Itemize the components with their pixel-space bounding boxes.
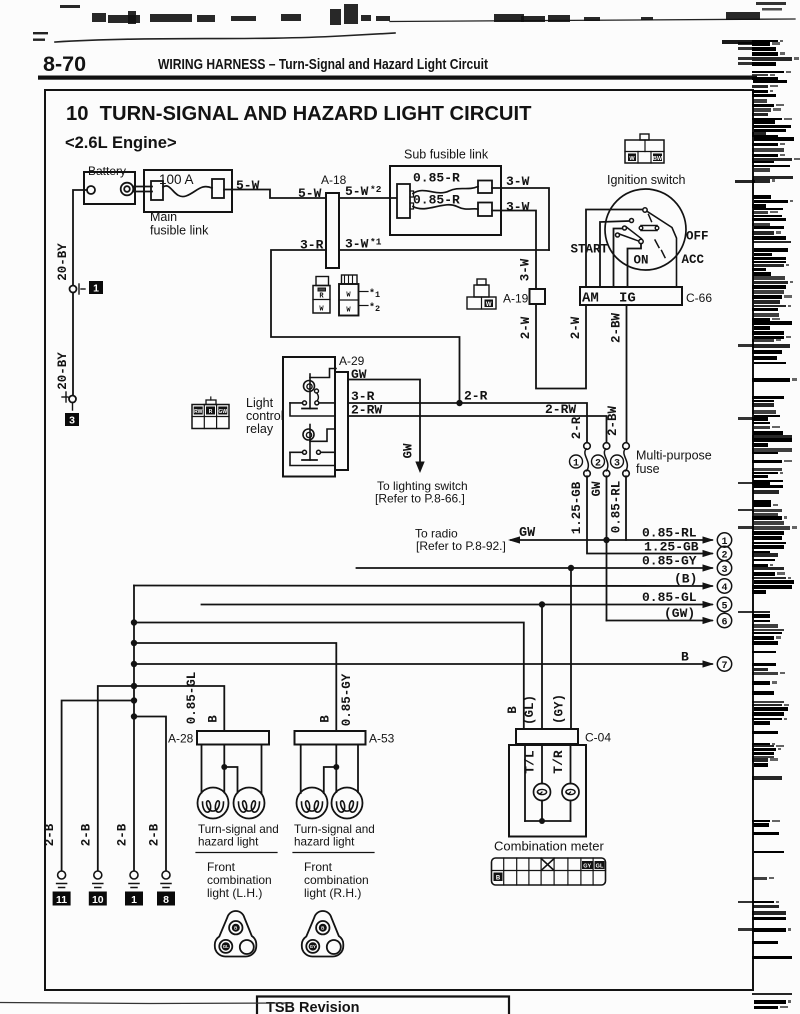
- A-53 left lamp leg: [300, 745, 302, 794]
- variant connector icon *1 (R/W): [316, 277, 329, 286]
- svg-text:0.85-GY: 0.85-GY: [340, 673, 354, 726]
- contact dot A: [630, 219, 634, 223]
- svg-text:<2.6L Engine>: <2.6L Engine>: [65, 134, 177, 152]
- ground terminal 1: [130, 871, 138, 879]
- svg-text:GW: GW: [351, 367, 367, 382]
- svg-text:Main: Main: [150, 210, 177, 224]
- svg-text:7: 7: [721, 661, 727, 672]
- svg-text:2: 2: [375, 304, 380, 314]
- double wire battery to fuse element: [133, 187, 152, 192]
- svg-text:20-BY: 20-BY: [56, 352, 70, 390]
- connector icon near A-19: [477, 279, 486, 285]
- svg-text:Ignition switch: Ignition switch: [607, 173, 686, 187]
- connector terminal at bottom of 20-BY: [69, 396, 76, 403]
- combination meter box: [509, 745, 586, 837]
- wire 20-BY lower segment: [72, 293, 74, 396]
- svg-text:A-18: A-18: [321, 173, 347, 187]
- svg-text:3-W: 3-W: [345, 237, 369, 252]
- svg-text:1: 1: [375, 290, 380, 300]
- A-28 inner junction: [221, 764, 227, 770]
- sub link left terminal: [397, 184, 410, 218]
- bus junction to A-53 B: [131, 640, 137, 646]
- connector A-53: [295, 731, 366, 745]
- wire AM feed to pivot: [586, 210, 643, 288]
- wire 2-W from A-19 to AM: [536, 304, 586, 389]
- svg-text:B: B: [207, 715, 221, 723]
- wire B to A-28: [134, 686, 224, 731]
- A-28 left lamp leg: [201, 745, 203, 793]
- svg-text:R: R: [209, 409, 213, 415]
- meter internal T/L feed: [541, 745, 543, 784]
- svg-text:W: W: [486, 302, 492, 308]
- combination meter connector strip: [492, 858, 606, 885]
- wire pivot to OFF leg: [647, 211, 677, 287]
- svg-text:(GW): (GW): [664, 606, 695, 621]
- svg-text:10: 10: [92, 894, 104, 906]
- svg-text:(GL): (GL): [523, 695, 537, 725]
- svg-text:W: W: [346, 292, 351, 300]
- meter ground rail: [525, 820, 571, 822]
- ignition switch connector icon: [640, 134, 649, 140]
- circuit number 7: [717, 657, 731, 671]
- wire 3-W lower output drops to A-19: [492, 211, 536, 290]
- relay 1 moving contact: [315, 389, 319, 393]
- X mark cell: [541, 859, 554, 871]
- TSB revision box: [257, 997, 509, 1014]
- sub link right terminal lower: [478, 203, 492, 217]
- fuse number 1: [570, 455, 583, 468]
- sub fusible link box: [390, 166, 501, 235]
- svg-text:B: B: [681, 650, 689, 665]
- multi-purpose fuse 2: [603, 443, 610, 450]
- wire GW to radio and circuit 1: [511, 539, 712, 541]
- svg-text:Turn-signal and: Turn-signal and: [198, 823, 279, 836]
- multi-purpose fuse 3: [623, 443, 630, 450]
- wire fuse1 to circuit 2 (1.25-GB): [587, 476, 712, 553]
- leader to *2: [359, 305, 369, 307]
- svg-text:ACC: ACC: [682, 253, 705, 267]
- svg-text:light (L.H.): light (L.H.): [207, 886, 262, 900]
- svg-text:GY: GY: [310, 944, 316, 949]
- ground marker box 1: [89, 281, 103, 294]
- svg-text:3-W: 3-W: [506, 174, 530, 189]
- ground marker box 10: [89, 892, 107, 906]
- wire to contact A: [600, 221, 629, 287]
- svg-text:3-R: 3-R: [300, 238, 324, 253]
- svg-text:(B): (B): [674, 572, 697, 587]
- bulb returns to ground rail: [542, 801, 571, 822]
- bus junction to C-04 B: [131, 619, 137, 625]
- relay 2 contact wires: [290, 451, 335, 453]
- ground terminal 11: [58, 871, 66, 879]
- svg-text:2-B: 2-B: [43, 823, 57, 846]
- svg-text:fusible link: fusible link: [150, 224, 209, 238]
- wire battery negative 20-BY: [73, 190, 87, 285]
- junction GW at wire 1: [603, 537, 609, 543]
- grommet pad R.H.: [302, 911, 344, 957]
- svg-text:100 A: 100 A: [159, 172, 194, 187]
- wire fuse2 GW down: [606, 476, 608, 620]
- connector C-66: [580, 287, 682, 305]
- svg-text:hazard light: hazard light: [294, 836, 355, 849]
- svg-text:combination: combination: [304, 873, 369, 887]
- svg-text:Turn-signal and: Turn-signal and: [294, 823, 375, 836]
- wire GW circuit 6: [607, 620, 713, 622]
- fusible wire 0.85-R lower: [413, 205, 478, 209]
- svg-text:5-W: 5-W: [236, 178, 260, 193]
- svg-text:0.85-R: 0.85-R: [413, 193, 460, 208]
- connector A-29: [335, 372, 348, 470]
- battery: [84, 172, 135, 204]
- svg-text:GW: GW: [519, 526, 536, 541]
- svg-text:2-BW: 2-BW: [606, 406, 620, 437]
- svg-text:C-66: C-66: [686, 291, 712, 305]
- svg-text:T/L: T/L: [523, 750, 538, 774]
- svg-text:B: B: [506, 706, 520, 714]
- fusible wire 0.85-R upper: [413, 187, 478, 194]
- A-28 branch to right bulb: [224, 767, 237, 793]
- ground marker box 3: [65, 413, 79, 426]
- svg-text:1: 1: [573, 459, 579, 470]
- top scan noise line: [55, 33, 395, 42]
- svg-text:A-53: A-53: [369, 732, 395, 746]
- contact dot C (START): [616, 233, 620, 237]
- svg-text:0.85-GL: 0.85-GL: [642, 590, 697, 605]
- svg-text:5-W: 5-W: [298, 186, 322, 201]
- fusible link wire curve: [163, 186, 212, 197]
- wire 0.85-GL circuit 5: [202, 604, 713, 606]
- connector joint on 20-BY wire: [70, 286, 77, 293]
- connector A-19: [530, 289, 546, 304]
- svg-text:GW: GW: [590, 481, 604, 497]
- wire B circuit 7: [134, 663, 712, 665]
- svg-text:3-W: 3-W: [506, 200, 530, 215]
- relay armature 2: [309, 425, 311, 461]
- bus junction ground 8: [131, 713, 137, 719]
- svg-text:C-04: C-04: [585, 731, 611, 745]
- svg-text:BW: BW: [653, 156, 663, 162]
- relay coil 2: [303, 429, 314, 440]
- ground marker box 11: [53, 892, 71, 906]
- wire fuse3 0.85-RL down: [625, 476, 627, 540]
- svg-text:2-R: 2-R: [464, 389, 488, 404]
- indicator bulb T/R: [562, 784, 579, 801]
- svg-text:AM: AM: [582, 291, 599, 307]
- svg-text:2-RW: 2-RW: [545, 402, 576, 417]
- indicator bulb T/L: [534, 784, 551, 801]
- wire 3-R from A-18 down around to junction: [271, 250, 460, 402]
- svg-text:*1: *1: [370, 237, 382, 248]
- main diagram border frame: [45, 90, 753, 990]
- svg-text:20-BY: 20-BY: [56, 243, 70, 281]
- svg-text:1.25-GB: 1.25-GB: [570, 481, 584, 534]
- relay coil 1 feed: [310, 369, 336, 378]
- svg-text:hazard light: hazard light: [198, 836, 259, 849]
- svg-text:ON: ON: [634, 254, 649, 268]
- svg-text:2: 2: [595, 459, 601, 470]
- meter internal B line: [524, 745, 526, 821]
- svg-text:B: B: [319, 715, 333, 723]
- svg-text:fuse: fuse: [636, 462, 660, 476]
- light control relay body: [283, 357, 335, 477]
- svg-text:*2: *2: [370, 184, 382, 195]
- svg-text:10 TURN-SIGNAL AND HAZARD LIG: 10 TURN-SIGNAL AND HAZARD LIGHT CIRCUIT: [66, 103, 532, 125]
- wire 2-RW from relay to fuse 2: [348, 416, 607, 444]
- svg-text:GW: GW: [402, 443, 416, 459]
- multi-purpose fuse 1: [584, 443, 591, 450]
- junction GY drop: [568, 565, 574, 571]
- svg-text:B: B: [496, 876, 501, 882]
- turn-signal bulb R.H. left: [297, 788, 328, 819]
- wire GW from relay to lighting switch: [348, 380, 420, 465]
- ground marker box 8: [157, 892, 175, 906]
- rail junction: [539, 818, 545, 824]
- circuit number 2: [717, 546, 731, 560]
- ignition switch body circle: [605, 189, 686, 270]
- svg-text:6: 6: [721, 618, 727, 629]
- wire 3-W*1: [339, 249, 549, 251]
- wire 0.85-GY circuit 3: [357, 567, 713, 569]
- svg-text:IG: IG: [619, 291, 636, 307]
- fuse element right terminal: [212, 179, 224, 198]
- wire to contact B: [614, 229, 623, 288]
- relay coil 2 link: [310, 429, 335, 441]
- relay coil 1: [304, 381, 315, 392]
- fuse element left terminal: [151, 181, 163, 200]
- svg-text:GL: GL: [223, 944, 229, 949]
- circuit number 4: [717, 579, 731, 593]
- wire to ground 8: [134, 717, 166, 872]
- svg-text:1: 1: [131, 894, 137, 906]
- wire B circuit 4: [134, 585, 712, 588]
- svg-text:2-W: 2-W: [569, 316, 583, 339]
- turn-signal bulb L.H. left: [198, 788, 229, 819]
- A-28 B inner wire: [223, 745, 225, 793]
- svg-text:4: 4: [721, 583, 727, 594]
- relay 2 output jog: [290, 452, 335, 465]
- svg-text:0.85-R: 0.85-R: [413, 171, 460, 186]
- svg-text:0.85-GL: 0.85-GL: [185, 672, 199, 725]
- contact dot B: [623, 226, 627, 230]
- svg-text:GW: GW: [218, 409, 227, 415]
- ground bus vertical: [133, 586, 135, 872]
- svg-text:2-B: 2-B: [148, 823, 162, 846]
- connector A-18: [326, 193, 339, 268]
- page header: thick rule: [38, 76, 757, 80]
- svg-text:1.25-GB: 1.25-GB: [644, 540, 699, 555]
- wire 5-W*2 into sub fusible link: [339, 197, 397, 199]
- pivot contact: [643, 208, 647, 212]
- svg-text:5-W: 5-W: [345, 184, 369, 199]
- svg-text:Front: Front: [304, 860, 333, 874]
- main fusible link box: [144, 170, 232, 212]
- bus junction wire 7: [131, 661, 137, 667]
- variant connector icon *2 (W/W): [342, 275, 358, 284]
- junction node 2-R: [456, 400, 462, 406]
- svg-text:8-70: 8-70: [43, 52, 86, 76]
- svg-text:combination: combination: [207, 873, 272, 887]
- svg-text:8: 8: [163, 894, 169, 906]
- A-53 right lamp leg: [357, 745, 359, 793]
- svg-text:5: 5: [721, 602, 727, 613]
- fuse number 2: [592, 455, 605, 468]
- wire 5-W to A-18: [224, 190, 326, 199]
- svg-text:[Refer to P.8-92.]: [Refer to P.8-92.]: [416, 539, 506, 553]
- svg-text:2-R: 2-R: [570, 416, 584, 439]
- sub link right terminal upper: [478, 181, 492, 194]
- svg-text:Light: Light: [246, 396, 274, 410]
- svg-text:A-28: A-28: [168, 732, 194, 746]
- svg-text:A-29: A-29: [339, 354, 365, 368]
- svg-text:relay: relay: [246, 422, 274, 436]
- relay 1 output jog to 2-RW pin: [290, 403, 335, 416]
- svg-text:2-BW: 2-BW: [610, 313, 624, 344]
- svg-text:[Refer to P.8-66.]: [Refer to P.8-66.]: [375, 492, 465, 506]
- svg-text:A-19: A-19: [503, 292, 529, 306]
- svg-text:Sub fusible link: Sub fusible link: [404, 148, 489, 162]
- svg-text:0.85-RL: 0.85-RL: [610, 481, 624, 534]
- A-28 right lamp leg: [261, 745, 263, 794]
- meter internal T/R feed: [570, 745, 572, 784]
- dashed ACC line: [649, 215, 666, 258]
- ON contact dot: [639, 239, 643, 243]
- svg-text:0.85-GY: 0.85-GY: [642, 554, 697, 569]
- svg-text:2-B: 2-B: [79, 823, 93, 846]
- svg-text:control: control: [246, 409, 284, 423]
- relay 1 core bar: [302, 408, 317, 410]
- cell label B: [494, 873, 503, 882]
- relay 2 contacts: [303, 450, 307, 454]
- light control relay connector icon: [206, 400, 216, 405]
- svg-text:light (R.H.): light (R.H.): [304, 886, 361, 900]
- bus junction ground 11: [131, 697, 137, 703]
- svg-text:Front: Front: [207, 860, 236, 874]
- svg-text:11: 11: [56, 894, 67, 906]
- grommet pad L.H.: [215, 911, 256, 957]
- circuit number 3: [717, 561, 731, 575]
- brace line LH: [196, 852, 277, 854]
- wire 2-BW from IG to fuse 3: [626, 305, 628, 444]
- svg-text:GL: GL: [596, 864, 604, 870]
- relay armature 1: [309, 374, 311, 409]
- wire B to C-04: [134, 623, 524, 730]
- brace line RH: [293, 852, 374, 854]
- svg-text:RW: RW: [194, 409, 203, 415]
- svg-text:START: START: [571, 243, 609, 257]
- svg-text:0.85-RL: 0.85-RL: [642, 526, 697, 541]
- wire to ground 11: [62, 701, 134, 872]
- leader to *1: [359, 291, 369, 293]
- svg-text:1: 1: [93, 283, 99, 295]
- relay 2 core bar: [302, 459, 317, 461]
- wire B to A-53: [134, 643, 336, 731]
- svg-text:3: 3: [69, 415, 75, 427]
- svg-text:T/R: T/R: [551, 750, 566, 774]
- svg-text:TSB Revision: TSB Revision: [266, 1000, 359, 1014]
- svg-text:Battery: Battery: [88, 164, 126, 178]
- wire GY drop to C-04: [570, 568, 572, 729]
- svg-text:W: W: [346, 307, 351, 315]
- circuit number 6: [717, 613, 731, 627]
- svg-text:3-W: 3-W: [519, 258, 533, 281]
- wire 3-R / 2-R from relay to fuse 1: [348, 403, 587, 444]
- ground terminal 10: [94, 871, 102, 879]
- turn-signal bulb L.H. right: [234, 788, 265, 819]
- svg-text:3: 3: [614, 459, 620, 470]
- radio arrowhead left: [508, 536, 520, 543]
- svg-text:GY: GY: [583, 864, 591, 870]
- svg-text:2: 2: [721, 551, 727, 562]
- svg-text:W: W: [629, 156, 635, 162]
- svg-text:2-B: 2-B: [116, 823, 130, 846]
- svg-text:Multi-purpose: Multi-purpose: [636, 449, 712, 463]
- ground terminal 8: [162, 871, 170, 879]
- relay 1 contact wires: [290, 402, 335, 404]
- A-53 branch to left bulb: [324, 767, 337, 793]
- circuit number 5: [717, 597, 731, 611]
- cell label GL: [595, 861, 605, 869]
- OFF contact bar: [641, 226, 657, 231]
- bus junction ground 10 / A-28 B: [131, 683, 137, 689]
- circuit number 1: [717, 533, 731, 547]
- wire GL drop to C-04: [541, 605, 543, 730]
- svg-text:2-RW: 2-RW: [351, 403, 382, 418]
- moving contact arm (double line): [619, 227, 641, 241]
- svg-text:Combination meter: Combination meter: [494, 839, 604, 854]
- wire 3-W upper output joins 3-W*1: [492, 188, 549, 250]
- cell label GY: [582, 861, 593, 869]
- wire to ground 10: [98, 686, 134, 871]
- relay 1 contacts: [303, 401, 307, 405]
- junction GL drop: [539, 601, 545, 607]
- fuse number 3: [611, 455, 624, 468]
- connector C-04: [516, 729, 578, 744]
- svg-text:3: 3: [721, 565, 727, 576]
- svg-text:WIRING HARNESS – Turn-Signal a: WIRING HARNESS – Turn-Signal and Hazard …: [158, 57, 488, 73]
- A-53 inner junction: [333, 764, 339, 770]
- svg-text:OFF: OFF: [686, 230, 709, 244]
- ground marker box 1: [125, 892, 143, 906]
- connector A-28: [197, 731, 269, 745]
- wire ON contact to IG terminal: [628, 244, 642, 287]
- turn-signal bulb R.H. right: [332, 788, 363, 819]
- svg-text:2-W: 2-W: [519, 316, 533, 339]
- A-53 B inner wire: [335, 745, 337, 793]
- GW arrowhead down: [415, 462, 424, 474]
- bottom page edge line: [0, 1003, 292, 1004]
- svg-text:(GY): (GY): [553, 694, 567, 724]
- scanner binding noise band (decorative): [722, 2, 800, 1009]
- small scan marks left margin: [33, 32, 48, 34]
